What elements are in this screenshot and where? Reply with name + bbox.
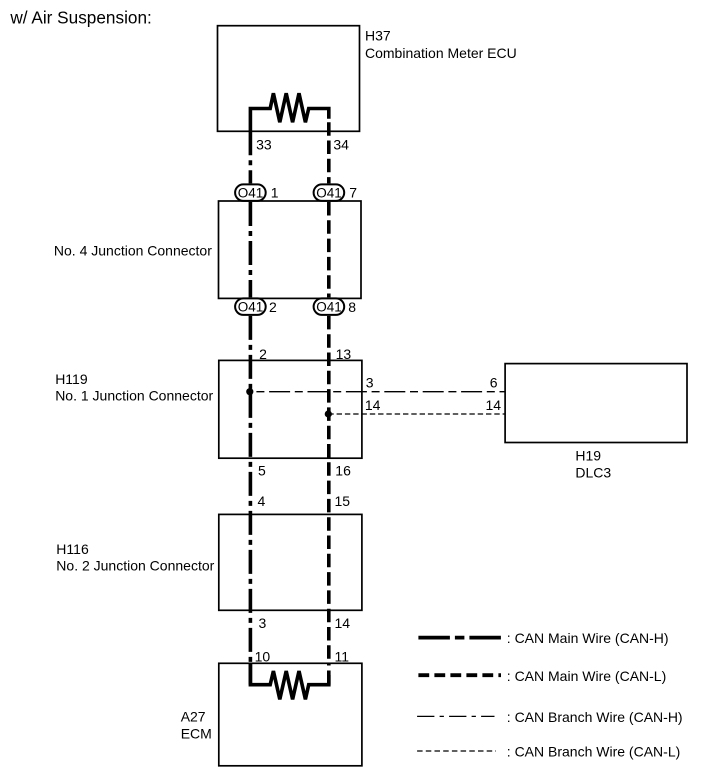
svg-text:A27: A27 [181, 709, 206, 725]
svg-text:14: 14 [335, 615, 351, 631]
connector O41 pin1 oval [235, 184, 266, 201]
wire CAN-L branch to DLC3 [328, 413, 505, 415]
svg-text:H116: H116 [56, 541, 89, 557]
svg-text:No. 4 Junction Connector: No. 4 Junction Connector [54, 242, 212, 258]
svg-text:w/ Air Suspension:: w/ Air Suspension: [9, 8, 151, 28]
svg-text:O41: O41 [316, 185, 342, 200]
svg-text:3: 3 [366, 374, 374, 390]
svg-text:13: 13 [336, 346, 352, 362]
ECU H37 box [218, 26, 360, 132]
svg-text:: CAN Branch Wire (CAN-L): : CAN Branch Wire (CAN-L) [507, 743, 680, 759]
svg-text:11: 11 [335, 649, 350, 665]
resistor R2 (terminating resistor in ECM) [250, 663, 328, 699]
svg-text:1: 1 [271, 185, 279, 201]
wire CAN-H main vertical segment 2 [249, 202, 253, 297]
junction connector J4 box [219, 201, 362, 298]
ECM A27 box [219, 663, 362, 766]
svg-text:H119: H119 [55, 371, 88, 387]
svg-text:: CAN Branch Wire (CAN-H): : CAN Branch Wire (CAN-H) [507, 709, 683, 725]
svg-text:: CAN Main Wire (CAN-L): : CAN Main Wire (CAN-L) [507, 668, 666, 684]
wire CAN-L main vertical segment 2 [327, 202, 331, 297]
svg-text:H37: H37 [365, 27, 391, 43]
svg-text:Combination Meter ECU: Combination Meter ECU [365, 45, 517, 61]
node junction dot CAN-H [246, 388, 253, 395]
legend CAN main wire CAN-H sample [418, 636, 501, 640]
wire CAN-L main vertical segment 3 [327, 316, 331, 666]
svg-text:5: 5 [258, 462, 266, 478]
svg-text:H19: H19 [575, 448, 601, 464]
svg-text:O41: O41 [238, 185, 264, 200]
wire CAN-H branch to DLC3 [250, 391, 505, 393]
svg-text:15: 15 [335, 493, 351, 509]
svg-text:10: 10 [255, 649, 271, 665]
svg-text:ECM: ECM [181, 725, 212, 741]
svg-text:6: 6 [490, 374, 498, 390]
svg-text:34: 34 [333, 137, 349, 153]
svg-text:16: 16 [335, 462, 351, 478]
svg-text:14: 14 [365, 397, 381, 413]
svg-text:33: 33 [256, 137, 272, 153]
legend CAN branch wire CAN-L sample [417, 750, 496, 752]
legend CAN main wire CAN-L sample [418, 673, 501, 677]
svg-text:7: 7 [349, 185, 357, 201]
svg-text:3: 3 [259, 615, 267, 631]
svg-text:: CAN Main Wire (CAN-H): : CAN Main Wire (CAN-H) [507, 630, 669, 646]
svg-text:O41: O41 [316, 299, 342, 314]
connector O41 pin8 oval [314, 298, 345, 315]
junction connector H116 box [219, 514, 362, 610]
junction connector H119 box [219, 360, 362, 458]
connector O41 pin7 oval [314, 184, 345, 201]
wire CAN-H main vertical segment 1 [249, 131, 253, 183]
svg-text:8: 8 [348, 299, 356, 315]
svg-text:O41: O41 [238, 299, 264, 314]
svg-text:4: 4 [258, 493, 266, 509]
svg-text:No. 2 Junction Connector: No. 2 Junction Connector [56, 557, 214, 573]
connector O41 pin2 oval [235, 298, 266, 315]
wire CAN-H main vertical segment 4 (inside ECM, solid) [249, 663, 253, 684]
node junction dot CAN-L [325, 410, 332, 417]
wire CAN-H main vertical segment 3 [249, 316, 253, 663]
svg-text:No. 1 Junction Connector: No. 1 Junction Connector [55, 388, 213, 404]
svg-text:2: 2 [269, 299, 277, 315]
connector DLC3 H19 box [505, 364, 687, 443]
resistor R1 (terminating resistor in H37) [250, 93, 328, 131]
legend CAN branch wire CAN-H sample [417, 715, 494, 717]
svg-text:14: 14 [486, 397, 502, 413]
wire CAN-L main vertical segment 4 (into ECM resistor, solid) [327, 671, 331, 685]
svg-text:DLC3: DLC3 [575, 464, 611, 480]
wire CAN-L main vertical segment 1 [327, 122, 331, 183]
svg-text:2: 2 [259, 346, 267, 362]
